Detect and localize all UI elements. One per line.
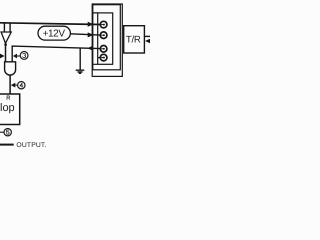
arrowhead into T/R from right edge (incoming) [145, 39, 150, 44]
node 3 callout arrow [13, 54, 17, 59]
ground symbol [76, 70, 85, 73]
arrowhead out of probe block (receive, pointing left) [87, 46, 92, 51]
svg-text:OUTPUT.: OUTPUT. [16, 142, 46, 149]
transducer inner rectangle [98, 13, 113, 64]
node 5 circled label with dash to left edge [0, 131, 4, 133]
junction dot at amp output [4, 43, 7, 46]
wire: output stub at bottom [0, 144, 14, 146]
ground stem from receive wire [79, 48, 81, 70]
svg-text:T/R: T/R [126, 35, 141, 46]
wire: stub from top line to amp input (left) [3, 23, 5, 32]
wire: detector output down to box [9, 75, 11, 94]
T/R switch box [124, 26, 145, 53]
stem wire to pin 4 [98, 57, 101, 59]
compartment divider extensions to body left edge [93, 13, 98, 64]
transducer element pin 1 [100, 21, 107, 28]
arrowhead into probe block (transmit) [88, 22, 94, 27]
arrowhead into probe block (+12V) [88, 32, 94, 37]
detector stage (dome / gate symbol pointing down) [5, 62, 16, 75]
wire: top transmit line into probe block [0, 23, 100, 25]
wire: receive line from probe block down to detector [12, 46, 100, 62]
probe body rectangle [93, 5, 121, 70]
transducer element pin 4 [100, 54, 107, 61]
op-amp triangle (receive amplifier, pointing down) [1, 32, 11, 43]
wire: stub from top line to amp input (right) [9, 23, 11, 32]
transducer element pin 2 [100, 32, 107, 39]
transducer element pin 3 [100, 46, 107, 53]
wire: +12V to probe block [70, 34, 100, 35]
node 3 circled label [20, 52, 28, 60]
wire: T/R to transducer (right edge, outgoing) [144, 35, 150, 37]
probe outermost case rectangle [92, 4, 122, 76]
wire: amp output down to detector [5, 43, 7, 62]
arrow from left edge into amp output node [0, 54, 5, 59]
node 4 callout arrow [11, 83, 16, 88]
svg-text:+12V: +12V [43, 29, 66, 40]
box: envelope stage (clipped at left edge) [0, 94, 20, 125]
svg-text:lop: lop [0, 102, 15, 114]
node 4 circled label [18, 82, 25, 89]
label R inside box [7, 96, 10, 100]
+12V supply bubble [38, 26, 70, 40]
